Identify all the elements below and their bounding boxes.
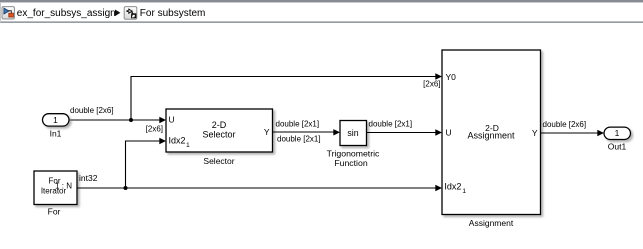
svg-text:For: For	[48, 207, 61, 217]
arrowhead into Assignment U	[435, 129, 442, 135]
svg-text:U: U	[169, 114, 175, 124]
wire branch up to Assignment Y0	[131, 77, 436, 121]
svg-text:double [2x1]: double [2x1]	[277, 134, 321, 143]
svg-text:[2x6]: [2x6]	[423, 80, 440, 89]
svg-text:1: 1	[462, 188, 466, 195]
svg-text:sin: sin	[347, 128, 358, 138]
inport In1	[43, 114, 70, 126]
svg-text:Assignment: Assignment	[467, 131, 515, 141]
breadcrumb model icon	[2, 7, 14, 19]
svg-text:2-D: 2-D	[212, 120, 227, 130]
svg-text:1: 1	[186, 142, 190, 149]
svg-text:double [2x1]: double [2x1]	[276, 119, 320, 128]
svg-text:Assignment: Assignment	[469, 218, 514, 228]
outport Out1	[604, 127, 631, 139]
arrowhead into Assignment Idx2	[435, 185, 442, 191]
svg-text:double [2x1]: double [2x1]	[369, 119, 413, 128]
junction node on For wire	[124, 186, 128, 190]
Assignment block	[442, 50, 541, 215]
wire In1 to Selector U	[69, 119, 160, 121]
svg-text:Y: Y	[532, 128, 538, 138]
arrowhead into sin	[333, 129, 340, 135]
left edge border	[0, 2, 1, 22]
svg-text:Trigonometric: Trigonometric	[327, 148, 380, 158]
breadcrumb subsystem icon	[124, 7, 137, 20]
svg-text:U: U	[446, 128, 452, 138]
arrowhead into Assignment Y0	[435, 73, 442, 79]
svg-text:ex_for_subsys_assign: ex_for_subsys_assign	[17, 8, 116, 19]
svg-text:Idx2: Idx2	[169, 136, 186, 146]
svg-text:int32: int32	[79, 173, 98, 183]
svg-text:double [2x6]: double [2x6]	[70, 106, 114, 115]
wire Selector Y to sin	[273, 131, 335, 133]
svg-text:Y: Y	[264, 127, 270, 137]
breadcrumb bottom separator	[0, 21, 643, 23]
junction node on In1 wire	[129, 118, 133, 122]
Selector block S1	[166, 109, 273, 152]
svg-text:Idx2: Idx2	[444, 182, 461, 192]
wire Assignment Y to Out1	[541, 132, 598, 134]
svg-text:Selector: Selector	[202, 129, 235, 139]
svg-text:Y0: Y0	[446, 72, 457, 82]
breadcrumb separator arrow	[115, 10, 120, 17]
svg-text:1: 1	[615, 128, 620, 138]
svg-text:In1: In1	[50, 129, 62, 139]
breadcrumb bar background	[0, 0, 643, 22]
wire sin to Assignment U	[367, 132, 436, 134]
svg-text:Function: Function	[334, 158, 367, 168]
top grey band	[0, 0, 643, 2]
arrowhead into Selector U	[159, 117, 166, 123]
svg-text:[2x6]: [2x6]	[146, 125, 163, 134]
svg-text:For subsystem: For subsystem	[140, 8, 206, 19]
arrowhead into Selector Idx2	[159, 138, 166, 144]
For Iterator block	[34, 171, 77, 205]
svg-text:1: 1	[53, 115, 58, 125]
arrowhead into Out1	[597, 130, 604, 136]
Trigonometric Function block sin	[340, 121, 367, 146]
svg-text:Selector: Selector	[203, 156, 234, 166]
wire branch up to Selector Idx2	[126, 141, 161, 188]
svg-text:Out1: Out1	[608, 142, 627, 152]
svg-text:1 : N: 1 : N	[55, 182, 72, 191]
wire For Iterator to Assignment Idx2	[78, 187, 436, 189]
svg-text:double [2x6]: double [2x6]	[543, 120, 587, 129]
